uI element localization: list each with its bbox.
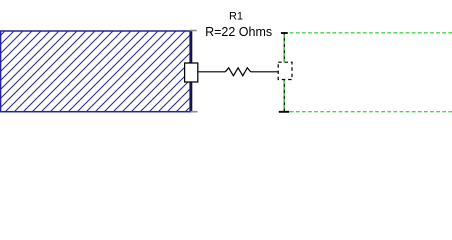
gray edge stub bottom-right (191, 111, 198, 113)
svg-text:R=22 Ohms: R=22 Ohms (205, 25, 272, 39)
wire: pin to resistor (198, 71, 225, 73)
svg-text:R1: R1 (229, 10, 243, 22)
pin terminal square on plane edge (185, 63, 198, 82)
wire: resistor to port (251, 71, 279, 73)
gray edge stub top-right (190, 30, 197, 32)
vertical stem top green dashed overlay (283, 35, 285, 63)
port (dashed square) (278, 62, 292, 79)
conductor plane (hatched region) (1, 31, 191, 112)
plane right edge (dark) (190, 30, 192, 112)
vertical stem to bottom reference (black) (283, 80, 285, 112)
vertical stem bottom green dashed overlay (283, 81, 285, 111)
top reference dashed line (green) (290, 32, 452, 34)
top tick cap (281, 32, 288, 34)
bottom tick cap (279, 111, 289, 113)
bottom reference dashed line (green) (290, 111, 452, 113)
vertical stem to top reference (black) (283, 33, 285, 62)
resistor R1 body (225, 68, 250, 76)
